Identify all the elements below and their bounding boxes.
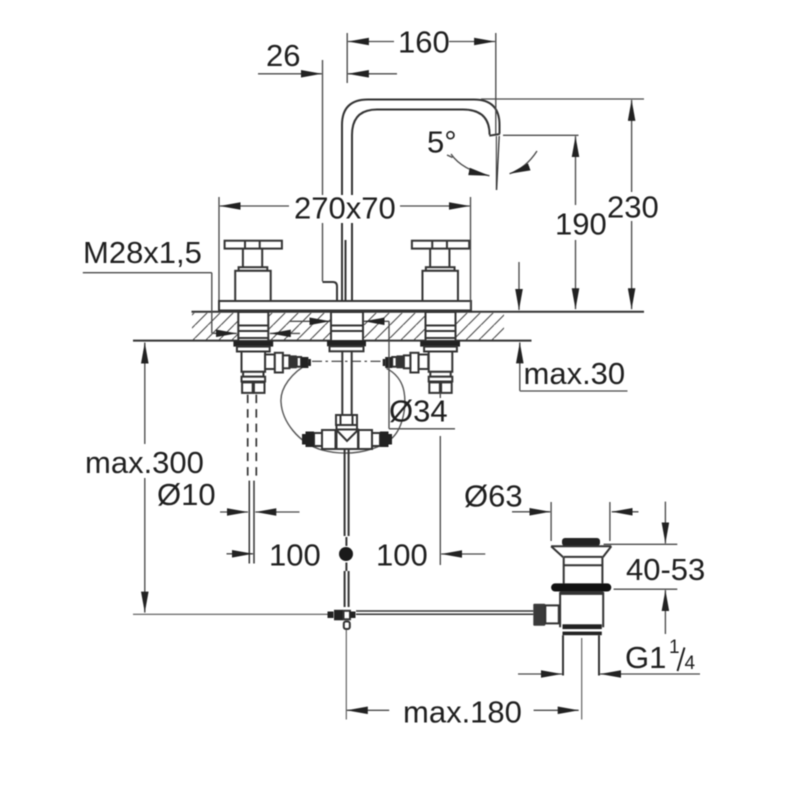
center supply pipe [342,351,351,415]
pop-up knob neck [545,605,559,623]
dim 160 extensions [347,33,496,134]
left handle H1 [225,241,282,301]
svg-text:270x70: 270x70 [294,191,396,226]
outlet stream vertical [495,136,497,190]
svg-text:100: 100 [376,538,428,573]
spout base foot [323,282,338,302]
5-degree arc left [451,154,490,176]
dim max30 upper arrow [518,262,520,310]
rod cross fitting [328,610,356,629]
pop-up flange trumpet [551,546,611,583]
dim 26 extension [322,60,324,282]
right valve side port [383,353,429,373]
dim O10 arrows [220,511,248,513]
spout column inner line [345,240,347,301]
dim 270x70 arrows [220,205,289,207]
node dot [339,547,353,561]
pop-up o-ring [551,583,611,591]
svg-text:230: 230 [607,190,659,225]
dim max30 lower arrow + landing [519,342,521,390]
pop-up waste knob [533,604,545,626]
text mask 270x70 [292,195,397,223]
deck top line [192,311,645,313]
spout tip nub [489,134,500,136]
dim max300 line [144,343,146,445]
svg-text:100: 100 [269,538,321,573]
dim 100 left arrow [227,553,254,555]
pipe below dot [345,563,347,572]
dim 190 line [575,136,577,205]
svg-text:26: 26 [266,38,300,73]
tee right arm [359,430,393,449]
dim 26 arrows [258,73,322,75]
faucet centerline below fitting [345,630,347,720]
svg-text:max.30: max.30 [524,356,626,391]
5-degree arc right [510,151,538,174]
dim 230 line [631,100,633,192]
dim 190 extension [503,134,579,136]
svg-text:Ø34: Ø34 [389,394,448,429]
5-degree leader [447,155,453,158]
dim 230 extension [481,98,644,100]
pop-up tailpipe [563,635,599,675]
tee hex nut [336,415,357,425]
svg-text:max.180: max.180 [403,695,522,730]
left valve lower nuts [242,372,266,393]
dim 40-53 arrows [664,502,666,544]
dim 40-53 extensions [604,544,678,589]
M28 leader [83,273,212,334]
right valve shank [420,312,460,372]
outlet 5-degree line [497,136,500,190]
center shank [327,312,366,351]
dim O63 arrows [512,511,550,513]
svg-text:4: 4 [685,653,696,674]
pop-up bottom bands [563,624,602,629]
left dashed flex tails [248,395,257,481]
svg-text:1: 1 [669,637,680,658]
dim O63 extensions [551,502,610,541]
flexible hose loop [281,364,405,454]
datum line left [133,613,328,615]
pipe below tee [345,449,349,536]
svg-text:max.300: max.300 [85,445,204,480]
right valve lower nuts [429,372,453,393]
pop-up lower body [560,592,603,627]
svg-text:Ø10: Ø10 [157,477,216,512]
dim 100 right arrow + extension [441,553,485,555]
dim 270x70 extensions [219,197,471,310]
pop-up rod [356,611,533,614]
escutcheon plate [219,301,471,311]
spout outer profile [342,100,500,302]
wall hatch [192,313,504,340]
svg-text:M28x1,5: M28x1,5 [83,235,202,270]
left valve side port [265,353,311,373]
drain centerline [581,638,583,720]
pop-up waste cap [562,538,600,546]
left valve shank [233,312,273,372]
dim G1-1/4 arrows [518,673,562,675]
svg-text:40-53: 40-53 [626,552,705,587]
svg-text:160: 160 [398,25,450,60]
dim O34 arrows + leader [290,320,330,322]
dim max180 arrows [347,709,389,711]
dim 160 arrows [348,41,394,43]
svg-text:190: 190 [555,207,607,242]
right handle H2 [412,241,469,301]
spout inner profile [352,110,490,302]
deck bottom line [133,340,532,342]
svg-text:Ø63: Ø63 [464,479,523,514]
tee body with funnel [337,425,359,449]
supply centerline (dash-dot) [312,360,384,362]
svg-text:5°: 5° [427,125,457,160]
svg-text:G1: G1 [625,640,666,675]
tee left arm [302,430,336,449]
left solid tube [249,481,254,564]
